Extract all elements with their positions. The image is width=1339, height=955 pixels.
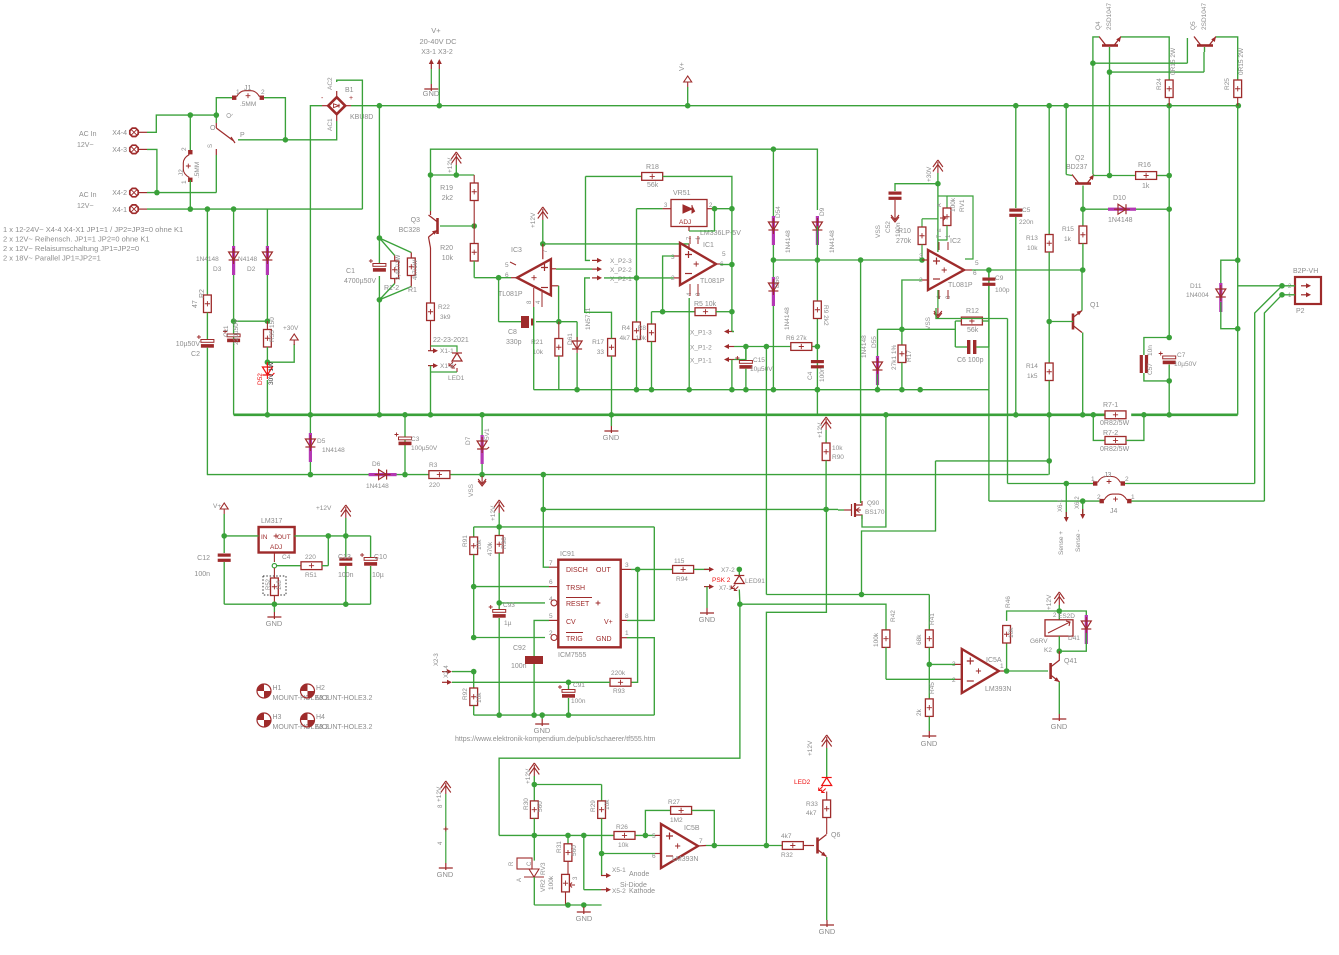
pin X_P2-1 <box>592 275 632 283</box>
diode D5 1N4148 <box>305 415 345 475</box>
svg-text:12V~: 12V~ <box>77 142 94 149</box>
svg-text:220k: 220k <box>611 670 626 677</box>
svg-text:C57: C57 <box>1147 363 1154 375</box>
resistor R7-2 0R82 5W loop <box>1093 415 1144 453</box>
svg-text:100p: 100p <box>995 287 1010 294</box>
wire C9 to J4 row <box>988 390 990 501</box>
wire IC1 pin4/8 riser to lower row <box>688 298 690 390</box>
junction <box>556 319 562 325</box>
wire J4 row <box>989 500 1265 502</box>
wire D9 feed <box>773 149 817 210</box>
wire V+ rail <box>351 105 1238 107</box>
resistor R4 4k7 <box>620 279 641 390</box>
svg-text:+30V: +30V <box>283 325 299 332</box>
svg-text:C5: C5 <box>1022 207 1031 214</box>
svg-text:100k: 100k <box>873 632 880 647</box>
resistor R94 115 <box>673 558 709 583</box>
resistor R25 0R15 2W <box>1224 47 1245 106</box>
svg-text:X4-2: X4-2 <box>112 190 127 197</box>
svg-text:2: 2 <box>952 677 956 684</box>
resistor R21 10k <box>531 322 563 390</box>
pin X6-1 Sense+ <box>1058 484 1069 556</box>
svg-text:1N4148: 1N4148 <box>784 307 791 330</box>
node configuration notes <box>3 225 183 263</box>
svg-text:GND: GND <box>699 615 716 624</box>
junction <box>1057 608 1063 614</box>
wire VSS row <box>207 474 1049 476</box>
svg-text:A: A <box>517 878 523 882</box>
svg-text:IC5B: IC5B <box>684 825 700 832</box>
svg-text:G6RV: G6RV <box>1030 638 1048 645</box>
svg-text:1k: 1k <box>1142 183 1150 190</box>
wire IC5B out to Q90 gate node <box>766 509 826 845</box>
junction <box>326 533 349 539</box>
power +12V arrow at Q3 <box>447 152 461 175</box>
LED LED2 (highlighted) <box>794 735 832 800</box>
svg-text:C15: C15 <box>753 357 765 364</box>
svg-text:P: P <box>240 132 245 139</box>
resistor R20 10k <box>440 226 478 278</box>
svg-text:R20: R20 <box>440 245 453 252</box>
resistor R42 100k <box>873 604 897 680</box>
svg-text:Q3: Q3 <box>411 217 420 224</box>
wire C11 R55 top row <box>234 320 268 322</box>
svg-text:R19: R19 <box>440 185 453 192</box>
svg-text:CV: CV <box>566 619 576 626</box>
junction <box>815 257 821 392</box>
svg-text:IC91: IC91 <box>560 551 575 558</box>
wire switch throw to X4-2 row <box>215 155 217 193</box>
jumper J4 <box>1097 494 1135 515</box>
op-amp IC5B LM393N <box>652 824 706 868</box>
capacitor C9 100p <box>982 270 1009 390</box>
svg-text:0R15 2W: 0R15 2W <box>1238 47 1245 75</box>
svg-text:R4: R4 <box>622 325 631 332</box>
svg-text:10k: 10k <box>604 799 611 810</box>
resistor R98 470k <box>487 527 508 603</box>
svg-text:D5: D5 <box>317 438 326 445</box>
svg-text:A: A <box>937 203 943 207</box>
wire current sense to comparator feed <box>862 461 936 595</box>
svg-text:R1-2: R1-2 <box>384 285 399 292</box>
svg-text:10k: 10k <box>476 539 483 550</box>
svg-text:R51: R51 <box>305 572 317 579</box>
resistor R17b 27k1 1% <box>891 329 913 389</box>
svg-text:D61: D61 <box>567 333 574 345</box>
svg-text:D3: D3 <box>213 266 222 273</box>
resistor R9 2k2 <box>814 301 830 326</box>
svg-text:DISCH: DISCH <box>566 567 588 574</box>
svg-text:TL081P: TL081P <box>700 278 725 285</box>
junction C1/bleeder node <box>377 235 383 302</box>
svg-text:1: 1 <box>1131 494 1135 501</box>
resistor R17 33 <box>592 339 615 415</box>
transistor Q6 <box>818 832 841 857</box>
svg-text:Q1: Q1 <box>1090 302 1099 309</box>
wire +30V to IC2 V+ <box>937 184 939 252</box>
svg-text:5: 5 <box>652 833 656 840</box>
svg-text:1k8: 1k8 <box>277 580 283 590</box>
svg-text:R12: R12 <box>966 308 979 315</box>
svg-text:10k: 10k <box>1027 245 1038 252</box>
svg-text:R46: R46 <box>1005 596 1012 608</box>
svg-text:AC In: AC In <box>79 131 97 138</box>
svg-text:X4-3: X4-3 <box>112 147 127 154</box>
svg-text:C1: C1 <box>346 268 355 275</box>
shunt reference VR2 <box>509 835 544 905</box>
svg-text:TL081P: TL081P <box>948 282 973 289</box>
wire switch pole up <box>215 115 217 123</box>
svg-text:R16: R16 <box>1138 162 1151 169</box>
wire IC3 pin4/8 to lower row <box>533 307 535 390</box>
svg-text:12V~: 12V~ <box>77 203 94 210</box>
wire Q3 collector to R22 <box>430 248 432 303</box>
svg-text:C9: C9 <box>995 275 1004 282</box>
junction <box>540 241 546 247</box>
junction <box>737 601 743 607</box>
ground GND X7 <box>699 587 716 624</box>
svg-text:100n: 100n <box>511 663 527 670</box>
svg-text:D9: D9 <box>819 207 826 216</box>
node V+ 20-40V DC / pads X3-1 X3-2 <box>419 26 457 69</box>
wire X_P2-1 left path to R17 <box>585 278 612 339</box>
svg-text:ADJ: ADJ <box>270 544 282 551</box>
junction <box>771 146 777 152</box>
bridge rectifier B1 KBU8D <box>321 77 373 131</box>
svg-text:GND: GND <box>603 433 620 442</box>
svg-text:+12V: +12V <box>447 157 454 173</box>
svg-text:220n: 220n <box>1019 219 1034 226</box>
capacitor C8 330p <box>506 316 534 346</box>
svg-text:D11: D11 <box>1190 283 1202 290</box>
resistor R93 220k <box>610 670 631 695</box>
svg-text:1k5: 1k5 <box>1027 373 1038 380</box>
svg-text:IN: IN <box>261 534 268 541</box>
wire V+ pin8 <box>627 527 654 621</box>
svg-text:Kathode: Kathode <box>629 888 655 895</box>
resistor R32 4k7 <box>781 833 814 859</box>
junction <box>188 206 237 212</box>
wire X4-1 row <box>147 208 362 210</box>
svg-text:1: 1 <box>1091 476 1095 483</box>
LED LED91 / PSK 2 <box>712 567 765 605</box>
svg-text:2SD1047: 2SD1047 <box>1201 3 1208 30</box>
svg-text:56k: 56k <box>967 327 979 334</box>
op-amp IC3 TL081P (mirrored) <box>498 244 559 307</box>
pin X6-2 Sense- <box>1075 496 1085 552</box>
connector pad X4-1 <box>112 205 147 214</box>
svg-text:MOUNT-HOLE3.2: MOUNT-HOLE3.2 <box>316 724 373 731</box>
wire VR51 right/adj tie <box>689 209 732 231</box>
junction <box>154 190 160 196</box>
svg-text:10µ: 10µ <box>372 572 384 579</box>
wire C8 node ties <box>559 321 577 323</box>
svg-text:R24: R24 <box>1156 78 1163 90</box>
svg-text:AC2: AC2 <box>327 77 334 90</box>
svg-text:3: 3 <box>671 254 675 261</box>
wire ADJ node <box>272 552 301 568</box>
jumper J3 <box>1091 472 1129 486</box>
wire limit row to VSS line <box>1048 461 1051 475</box>
wire R24 col / C57 C7 node <box>1166 335 1172 384</box>
junction <box>496 712 571 718</box>
svg-text:AC1: AC1 <box>327 118 334 131</box>
wire R18 right to feedback column <box>663 176 732 208</box>
svg-text:22-23-2021: 22-23-2021 <box>433 337 469 344</box>
svg-text:N4148: N4148 <box>238 256 258 263</box>
resistor R1-2 4k7/1W <box>384 254 402 292</box>
wire OUT to R93 loop <box>631 569 638 682</box>
svg-text:D7: D7 <box>465 436 472 445</box>
svg-text:220: 220 <box>429 482 440 489</box>
wire feedback col to row <box>731 360 733 390</box>
svg-text:R: R <box>509 861 515 866</box>
wire to LM393 feedback vertical <box>765 347 767 595</box>
diode D61 1N5711 <box>567 307 592 389</box>
capacitor C93 1u <box>489 602 516 715</box>
ground GND at bus <box>603 415 620 442</box>
pin X5-2 Kathode <box>584 835 655 895</box>
resistor R14 1k5 <box>1026 322 1053 461</box>
power +12V arrow IC5B <box>525 763 539 785</box>
transistor Q90 BS170 mosfet <box>838 260 886 527</box>
IC IC91 ICM7555 <box>549 551 631 659</box>
svg-text:+12V: +12V <box>1046 594 1053 610</box>
resistor R12 56k <box>955 308 989 334</box>
junction <box>532 782 538 788</box>
wire gate row <box>543 508 838 510</box>
junction <box>1080 206 1086 212</box>
svg-text:100n: 100n <box>338 572 354 579</box>
resistor R27 1M2 feedback <box>645 799 714 846</box>
svg-text:2: 2 <box>181 147 188 151</box>
svg-text:D54: D54 <box>775 206 782 218</box>
ground GND VR2 <box>576 905 593 923</box>
svg-text:4k7: 4k7 <box>781 833 792 840</box>
power +12V arrow at LM317 <box>316 505 351 536</box>
resistor R7-1 0R82 5W <box>1100 402 1130 427</box>
svg-text:H1: H1 <box>273 685 282 692</box>
wire Q2 emitter to D10 row <box>1082 186 1084 210</box>
svg-text:C13: C13 <box>338 554 351 561</box>
svg-text:X6-1: X6-1 <box>1058 499 1064 512</box>
svg-text:4k7/1W: 4k7/1W <box>413 259 419 280</box>
svg-text:R13: R13 <box>1026 235 1038 242</box>
wire P2 pin1 row <box>1282 294 1295 296</box>
junction <box>599 851 605 857</box>
resistor R24 0R15 2W <box>1156 47 1177 106</box>
svg-text:2k: 2k <box>916 708 923 716</box>
svg-text:BD237: BD237 <box>1066 164 1088 171</box>
svg-text:R15: R15 <box>1062 226 1074 233</box>
pin X_P1-1 <box>690 357 734 365</box>
junction <box>221 533 227 539</box>
svg-text:.5MM: .5MM <box>240 101 256 108</box>
svg-text:D55: D55 <box>871 336 878 348</box>
svg-text:H3: H3 <box>273 714 282 721</box>
resistor R90 10k <box>822 443 844 509</box>
svg-text:X_P2-3: X_P2-3 <box>610 258 632 265</box>
svg-text:220: 220 <box>305 554 316 561</box>
svg-text:4700µ50V: 4700µ50V <box>344 278 376 285</box>
svg-text:10k: 10k <box>618 842 629 849</box>
svg-text:X_P1-2: X_P1-2 <box>690 345 712 352</box>
svg-text:OUT: OUT <box>277 534 291 541</box>
svg-text:+12V: +12V <box>807 740 814 756</box>
voltage reference VR51 LM336LP-5V <box>663 190 742 237</box>
relay K2 G6RV <box>1030 611 1075 654</box>
svg-text:D52: D52 <box>257 373 264 385</box>
svg-text:D56: D56 <box>774 276 781 288</box>
junction <box>743 344 820 350</box>
diode D2 1N4148 <box>238 209 272 321</box>
svg-text:D2: D2 <box>247 266 256 273</box>
svg-text:3: 3 <box>919 253 923 260</box>
wire IC5A inputs <box>886 664 955 679</box>
svg-text:LED91: LED91 <box>745 578 765 585</box>
resistor R41 68k <box>916 595 936 665</box>
svg-text:30V 1W: 30V 1W <box>268 361 275 385</box>
svg-text:TRIG: TRIG <box>566 636 583 643</box>
svg-text:C3: C3 <box>411 436 420 443</box>
resistor R19 2k2 <box>440 175 478 226</box>
svg-text:D41: D41 <box>1068 635 1080 642</box>
resistor R15 1k <box>1062 209 1087 270</box>
svg-text:P2: P2 <box>1296 308 1305 315</box>
wire R42 feed <box>740 603 886 605</box>
svg-text:270k: 270k <box>896 238 912 245</box>
resistor R10 270k <box>896 219 938 260</box>
pin X2-4 <box>442 665 610 685</box>
svg-text:B2P-VH: B2P-VH <box>1293 268 1318 275</box>
node AC In labels <box>77 131 97 210</box>
svg-text:D6: D6 <box>372 461 381 468</box>
svg-text:LED1: LED1 <box>448 375 465 382</box>
svg-text:H4: H4 <box>316 714 325 721</box>
svg-text:GND: GND <box>266 619 283 628</box>
svg-text:E: E <box>937 228 943 232</box>
svg-text:R94: R94 <box>676 576 688 583</box>
pin X7-1 <box>704 584 732 592</box>
svg-text:VSS: VSS <box>925 316 932 330</box>
svg-text:2k2: 2k2 <box>442 195 453 202</box>
svg-text:C93: C93 <box>503 602 515 609</box>
svg-text:+: + <box>349 95 353 102</box>
junction <box>859 592 865 598</box>
svg-text:LM317: LM317 <box>261 518 283 525</box>
svg-text:H2: H2 <box>316 685 325 692</box>
junction <box>919 257 925 263</box>
capacitor C12 100n <box>194 536 230 604</box>
svg-text:R5 10k: R5 10k <box>694 301 717 308</box>
svg-text:C4: C4 <box>807 371 814 380</box>
wire R41 feed <box>766 594 929 596</box>
svg-text:R42: R42 <box>890 610 897 622</box>
svg-text:S: S <box>208 144 214 148</box>
svg-text:2: 2 <box>261 89 265 96</box>
svg-text:R93: R93 <box>613 688 625 695</box>
svg-text:R98: R98 <box>501 537 508 549</box>
svg-text:IC1: IC1 <box>703 242 714 249</box>
svg-text:RV1: RV1 <box>959 199 966 212</box>
svg-text:10n: 10n <box>1147 345 1154 356</box>
wire LM317 gnd rail <box>224 603 370 605</box>
wire IC5A out node <box>1007 643 1048 671</box>
resistor R91 10k <box>462 527 483 587</box>
junction <box>1279 283 1285 298</box>
power VSS arrow IC2 <box>925 290 942 330</box>
wire Q4 base/collector loop <box>1093 37 1169 80</box>
svg-text:C8: C8 <box>508 329 517 336</box>
svg-text:GND: GND <box>437 870 454 879</box>
svg-text:3,4k7/1W: 3,4k7/1W <box>396 254 402 280</box>
svg-text:27k1 1%: 27k1 1% <box>891 344 898 370</box>
capacitor C10 10u <box>360 536 387 604</box>
ground GND 555 <box>534 715 551 735</box>
svg-text:R7-1: R7-1 <box>1103 402 1118 409</box>
svg-text:4k7: 4k7 <box>806 810 817 817</box>
svg-text:X5-1: X5-1 <box>612 867 626 874</box>
resistor R26 10k <box>614 824 635 849</box>
pin X5-1 Anode <box>601 854 649 879</box>
svg-text:2SD1047: 2SD1047 <box>1106 3 1113 30</box>
power VSS arrow <box>468 476 486 497</box>
wire Q2 base from rail <box>1066 106 1072 176</box>
svg-text:R41: R41 <box>929 613 936 625</box>
power +30V arrow at IC2 <box>926 160 943 184</box>
svg-text:R52: R52 <box>266 578 272 590</box>
svg-text:C11: C11 <box>223 325 230 337</box>
wire IC3 pin2 down to C8 node <box>558 286 560 322</box>
power V+ arrow mid rail <box>679 62 692 105</box>
pin X1-1 <box>428 321 454 356</box>
svg-text:LM393N: LM393N <box>985 686 1011 693</box>
resistor R6 27k <box>786 335 812 350</box>
wire X4-4 to J1/switch node <box>147 115 216 132</box>
wire clamp row to IC2 <box>773 259 860 261</box>
svg-text:2 x 12V~ Reihensch. JP1=1 JP2=: 2 x 12V~ Reihensch. JP1=1 JP2=0 ohne K1 <box>3 235 150 244</box>
svg-text:6: 6 <box>973 270 977 277</box>
resistor R33 4k7 <box>806 800 831 834</box>
junction <box>823 507 829 513</box>
power +12V arrow relay <box>1046 592 1064 611</box>
power V+ arrow at LM317 <box>213 503 228 536</box>
ground GND Q41 <box>1051 714 1068 731</box>
capacitor C92 100n <box>511 645 543 715</box>
resistor R13 10k <box>1026 106 1053 322</box>
wire Q3 base to R19/R20 <box>440 225 474 227</box>
diode D41 <box>1059 611 1091 651</box>
svg-text:220µ50V: 220µ50V <box>233 318 240 345</box>
svg-text:0R82/5W: 0R82/5W <box>1100 446 1130 453</box>
pin X_P1-3 <box>690 329 734 337</box>
svg-text:O: O <box>210 125 216 132</box>
capacitor C15 10u50V <box>735 347 773 390</box>
svg-text:R45: R45 <box>929 682 936 694</box>
svg-text:R1: R1 <box>408 287 417 294</box>
svg-text:Anode: Anode <box>629 871 649 878</box>
capacitor C57 10n <box>1140 338 1170 381</box>
wire +12V to D54 line <box>431 149 774 175</box>
junction <box>858 257 864 263</box>
wire C7 node to bus <box>1168 381 1170 415</box>
svg-text:150: 150 <box>269 317 276 328</box>
svg-text:C92: C92 <box>513 645 526 652</box>
svg-text:Q41: Q41 <box>1064 658 1077 665</box>
svg-text:Q6: Q6 <box>831 832 840 839</box>
transistor Q41 <box>1051 651 1078 714</box>
svg-text:J3: J3 <box>1104 472 1112 479</box>
